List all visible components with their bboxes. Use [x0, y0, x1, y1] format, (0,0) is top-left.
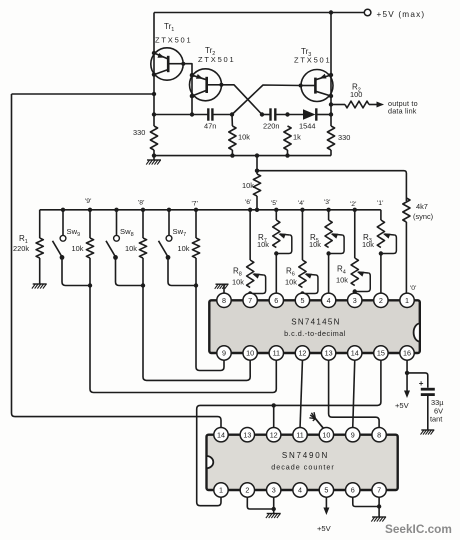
- preset R7 wiper loop: [276, 235, 292, 254]
- wire node row bus: [40, 209, 381, 211]
- U1 pin 9: [217, 346, 231, 360]
- resistor 1k: [284, 126, 291, 150]
- ground below 7490 pin7: [372, 516, 386, 518]
- svg-text:9: 9: [222, 349, 226, 358]
- svg-text:4: 4: [298, 486, 302, 495]
- svg-text:1k: 1k: [293, 133, 301, 142]
- svg-text:10k: 10k: [178, 244, 190, 253]
- resistor 330 left: [150, 126, 157, 150]
- svg-text:Sw9: Sw9: [67, 227, 81, 238]
- svg-text:ZTX501: ZTX501: [198, 55, 235, 64]
- resistor preset R3 10k: [380, 210, 382, 220]
- svg-text:Tr1: Tr1: [164, 22, 174, 33]
- preset R5 wiper arrow: [332, 234, 342, 235]
- preset R8 wiper loop: [250, 275, 266, 294]
- svg-text:10k: 10k: [362, 240, 374, 249]
- op-amp U1 SN74145N body: [209, 300, 419, 353]
- node ground rail junctions: [152, 153, 156, 157]
- svg-text:'9': '9': [85, 198, 91, 205]
- wire R7 to IC pin: [275, 254, 277, 294]
- U2 pin 9: [346, 428, 360, 442]
- wire Sw9 to column join: [62, 257, 90, 285]
- capacitor 47n: [207, 108, 209, 120]
- resistor R1 220k: [39, 210, 41, 238]
- ground above 74145 pin 8: [223, 285, 225, 294]
- U1 pin 3: [348, 293, 362, 307]
- annotation squiggle at 7490 pin10: [315, 419, 323, 429]
- U1 pin 14: [348, 346, 362, 360]
- U1 pin 16: [400, 346, 414, 360]
- svg-text:1: 1: [405, 296, 409, 305]
- svg-text:1: 1: [219, 486, 223, 495]
- node diode wire junction: [329, 112, 333, 116]
- svg-text:47n: 47n: [204, 122, 216, 131]
- wire R8 to IC pin: [249, 292, 251, 294]
- U2 pin 6: [346, 483, 360, 497]
- wire Tr1 base to Tr2 emitter: [183, 64, 192, 75]
- wire R5 to IC pin: [328, 254, 330, 294]
- preset R6 wiper arrow: [306, 274, 316, 275]
- wire 47n row left segment: [154, 114, 208, 116]
- svg-text:10k: 10k: [242, 181, 254, 190]
- transistor Tr1: [151, 48, 183, 80]
- wire oscillator ground rail: [154, 155, 331, 157]
- node 220n junction: [260, 112, 264, 116]
- U2 pin 4: [293, 483, 307, 497]
- wire QB net: 74145 pin14 to 7490 pin9: [353, 360, 355, 427]
- resistor preset R8 10k: [249, 210, 251, 260]
- U2 pin 8: [372, 428, 386, 442]
- wire Sw8 to column join: [116, 257, 144, 285]
- svg-text:3: 3: [353, 296, 357, 305]
- svg-text:7: 7: [248, 296, 252, 305]
- svg-text:(sync): (sync): [413, 212, 433, 221]
- svg-text:1544: 1544: [299, 122, 315, 131]
- wire 330 bottom to ground rail: [153, 150, 155, 156]
- svg-text:2: 2: [245, 486, 249, 495]
- svg-text:11: 11: [273, 349, 280, 358]
- capacitor C1 33u tant: [421, 388, 435, 391]
- wire QC net: 74145 pin13 to 7490 pin8: [329, 360, 380, 427]
- svg-text:SN74145N: SN74145N: [291, 318, 341, 327]
- resistor R2 100 output: [331, 104, 345, 106]
- svg-text:10k: 10k: [309, 240, 321, 249]
- svg-text:10: 10: [322, 430, 330, 439]
- preset R3 wiper loop: [381, 235, 397, 254]
- U2 pin 11: [293, 428, 307, 442]
- resistor preset R4 10k: [354, 210, 356, 258]
- svg-text:10: 10: [246, 349, 254, 358]
- wire column 9 to 74145 pin 11: [90, 286, 276, 393]
- svg-text:4: 4: [327, 296, 331, 305]
- svg-text:R8: R8: [233, 267, 242, 278]
- wire 220n left segment: [262, 114, 271, 116]
- svg-text:13: 13: [325, 349, 333, 358]
- resistor 10k beside Sw8: [142, 210, 144, 238]
- svg-text:+5V: +5V: [317, 524, 332, 533]
- svg-text:+5V (max): +5V (max): [377, 10, 426, 19]
- resistor 10k beside Sw9: [89, 210, 91, 238]
- svg-text:7: 7: [377, 486, 381, 495]
- U1 pin 11: [269, 346, 283, 360]
- wire 74145 pin16 supply: [406, 360, 408, 373]
- svg-text:decade counter: decade counter: [271, 463, 335, 472]
- wire column 8 to 74145 pin 10: [143, 286, 250, 381]
- wire right 330 bottom to ground rail: [330, 150, 332, 156]
- U1 pin 6: [269, 293, 283, 307]
- preset R6 wiper loop: [302, 275, 318, 294]
- wire R6 to IC pin: [301, 292, 303, 294]
- U1 pin 5: [295, 293, 309, 307]
- wire +5V top rail: [154, 12, 364, 14]
- transistor Tr3: [301, 70, 333, 102]
- resistor preset R7 10k: [275, 210, 277, 220]
- svg-text:330: 330: [133, 128, 145, 137]
- svg-text:10k: 10k: [125, 244, 137, 253]
- U2 pin 12: [267, 428, 281, 442]
- svg-text:8: 8: [222, 296, 226, 305]
- svg-text:2: 2: [379, 296, 383, 305]
- preset R4 wiper loop: [355, 273, 371, 292]
- svg-text:ZTX501: ZTX501: [155, 36, 192, 45]
- wire QD net: 74145 pin12 to 7490 pin11: [300, 360, 302, 427]
- svg-text:13: 13: [243, 430, 251, 439]
- U2 pin 13: [240, 428, 254, 442]
- wire right oscillator vertical (rail to 330): [330, 13, 332, 127]
- node sync branch junction: [255, 169, 259, 173]
- U1 notch: [414, 324, 420, 342]
- switch Sw8: [116, 210, 118, 236]
- svg-text:330: 330: [338, 133, 350, 142]
- U2 pin 2: [240, 483, 254, 497]
- svg-text:+: +: [419, 379, 424, 388]
- svg-text:R4: R4: [337, 265, 346, 276]
- ground below 7490 pin3: [267, 513, 281, 515]
- svg-text:b.c.d.-to-decimal: b.c.d.-to-decimal: [284, 329, 346, 338]
- svg-text:+5V: +5V: [395, 401, 410, 410]
- resistor preset R5 10k: [328, 210, 330, 220]
- diode 1544: [303, 109, 316, 119]
- preset R5 wiper loop: [329, 235, 345, 254]
- wire QA net: 7490 pin12 to 74145 pin15 and 7490 pin1: [197, 360, 381, 506]
- U2 pin 14: [214, 428, 228, 442]
- U1 pin 13: [321, 346, 335, 360]
- svg-text:14: 14: [351, 349, 359, 358]
- resistor 10k beside Sw7: [195, 210, 197, 238]
- wire 7490 pin12 stub: [273, 405, 275, 427]
- wire 7490 pin5 +5V: [325, 497, 327, 508]
- svg-text:6: 6: [274, 296, 278, 305]
- node Tr3 collector junction: [329, 94, 333, 98]
- svg-text:'5': '5': [271, 200, 277, 207]
- svg-text:'3': '3': [324, 199, 330, 206]
- transistor Tr2: [190, 69, 222, 101]
- svg-text:'4': '4': [298, 200, 304, 207]
- svg-text:14: 14: [217, 430, 225, 439]
- node Tr1 collector junction: [152, 72, 156, 76]
- svg-text:SeekIC.com: SeekIC.com: [385, 522, 452, 536]
- svg-text:8: 8: [377, 430, 381, 439]
- svg-text:10k: 10k: [285, 278, 297, 287]
- wire 7490 pins 2,3 to ground: [247, 497, 273, 509]
- U2 notch: [207, 456, 214, 468]
- U1 pin 10: [243, 346, 257, 360]
- resistor preset R6 10k: [301, 210, 303, 260]
- U1 pin 15: [374, 346, 388, 360]
- wire Tr2 base cross-coupling to 220n (diagonal): [221, 85, 262, 115]
- wire Tr2 emitter-collector vertical: [191, 75, 193, 114]
- ground below 330 left: [153, 156, 155, 160]
- svg-text:12: 12: [270, 430, 278, 439]
- svg-text:Sw7: Sw7: [173, 227, 187, 238]
- U1 pin 1: [400, 293, 414, 307]
- svg-text:SN7490N: SN7490N: [282, 451, 329, 460]
- svg-text:'7': '7': [192, 201, 198, 208]
- switch Sw9: [62, 210, 64, 236]
- node row junction dots: [61, 208, 65, 212]
- wire column 7 to 74145 pin 9: [196, 286, 224, 371]
- node 47n wire junction: [152, 112, 156, 116]
- wire far-left bus down to 7490 clock: [12, 94, 222, 428]
- svg-text:'8': '8': [138, 200, 144, 207]
- svg-text:'6': '6': [245, 199, 251, 206]
- svg-text:100: 100: [350, 90, 362, 99]
- svg-text:'0': '0': [410, 285, 416, 292]
- U1 pin 2: [374, 293, 388, 307]
- svg-text:10k: 10k: [72, 244, 84, 253]
- svg-text:data link: data link: [388, 107, 417, 116]
- U2 pin 5: [319, 483, 333, 497]
- U2 pin 10: [319, 428, 333, 442]
- node 47n-10k-Tr3base junction: [230, 112, 234, 116]
- U1 pin 7: [243, 293, 257, 307]
- preset R7 wiper arrow: [280, 234, 290, 235]
- svg-text:Sw8: Sw8: [120, 227, 134, 238]
- wire 7490 pins 6,7 to ground: [353, 497, 379, 506]
- wire R4 to IC pin: [354, 292, 356, 294]
- wire feedback tap to far-left bus: [12, 93, 155, 95]
- svg-text:16: 16: [403, 349, 411, 358]
- wire emitter rail to 10k feed: [256, 156, 258, 174]
- resistor 330 right: [327, 126, 334, 150]
- preset R4 wiper arrow: [358, 272, 368, 273]
- capacitor 220n: [269, 108, 271, 120]
- wire R3 to IC pin: [380, 254, 382, 294]
- wire Sw7 to column join: [168, 257, 196, 285]
- svg-text:10k: 10k: [232, 278, 244, 287]
- switch Sw7: [168, 210, 170, 236]
- wire to capacitor 33u: [407, 373, 428, 388]
- svg-text:6: 6: [351, 486, 355, 495]
- node left feedback junction: [152, 92, 156, 96]
- U2 pin 7: [372, 483, 386, 497]
- svg-text:tant: tant: [430, 415, 442, 424]
- node 1k top junction: [285, 112, 289, 116]
- svg-text:3: 3: [272, 486, 276, 495]
- U1 pin 4: [321, 293, 335, 307]
- svg-text:'1': '1': [377, 200, 383, 207]
- U2 pin 1: [214, 483, 228, 497]
- svg-text:'2': '2': [350, 201, 356, 208]
- node Tr3 emitter junction: [329, 73, 333, 77]
- svg-text:10k: 10k: [238, 133, 250, 142]
- ground below 33u: [421, 429, 434, 431]
- node R2 output junction: [329, 102, 333, 106]
- svg-text:4k7: 4k7: [416, 202, 428, 211]
- svg-text:5: 5: [300, 296, 304, 305]
- svg-text:10k: 10k: [336, 276, 348, 285]
- resistor 10k below Tr2: [231, 115, 233, 127]
- resistor 10k above node row: [253, 174, 260, 196]
- wire sync branch to 4k7: [257, 171, 406, 201]
- U1 pin 12: [295, 346, 309, 360]
- resistor 4k7 (sync): [403, 198, 410, 222]
- svg-text:R6: R6: [286, 267, 295, 278]
- preset R3 wiper arrow: [384, 234, 394, 235]
- svg-text:5: 5: [324, 486, 328, 495]
- node Tr2 vertical to 47n wire: [190, 112, 194, 116]
- svg-text:10k: 10k: [257, 240, 269, 249]
- svg-text:9: 9: [351, 430, 355, 439]
- svg-text:220n: 220n: [263, 122, 279, 131]
- svg-text:220k: 220k: [13, 244, 29, 253]
- node Tr1 emitter junction: [152, 51, 156, 55]
- preset R8 wiper arrow: [254, 274, 264, 275]
- svg-text:ZTX501: ZTX501: [294, 56, 331, 65]
- ground below R1: [33, 283, 47, 285]
- svg-text:15: 15: [377, 349, 385, 358]
- transistor U2 SN7490N body: [207, 435, 398, 490]
- wire Tr3 base cross-coupling to 10k/47n (diagonal): [232, 85, 301, 115]
- U2 pin 3: [267, 483, 281, 497]
- U1 pin 8: [217, 293, 231, 307]
- wire left oscillator vertical (rail to 330): [153, 13, 155, 127]
- node junction top rail to Tr3 column: [329, 10, 333, 14]
- svg-text:11: 11: [296, 430, 303, 439]
- terminal +5V (max): [364, 9, 371, 16]
- svg-text:12: 12: [298, 349, 306, 358]
